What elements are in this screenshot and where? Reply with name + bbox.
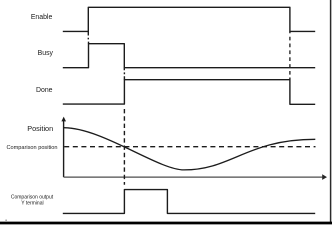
border right page edge [330, 0, 332, 224]
wire Done waveform [63, 80, 315, 105]
axis X (position plot horizontal axis with arrow) [64, 176, 323, 178]
curve position trajectory [64, 128, 316, 170]
wire Comparison output waveform [63, 190, 315, 214]
dashed edge-align connector at x=290 (Enable fall to Done fall) [289, 31, 291, 79]
stray dot bottom-left [5, 220, 6, 221]
dashed horizontal comparison-position level line [64, 146, 315, 148]
dashed vertical line at x=124 through position plot [123, 109, 125, 185]
svg-text:Position: Position [27, 124, 53, 133]
dashed edge-align connector at x=88 (Enable rise to Busy rise) [87, 31, 89, 43]
border bottom page edge (thick) [0, 222, 332, 225]
svg-text:Busy: Busy [38, 50, 54, 57]
svg-text:Comparison position: Comparison position [7, 145, 58, 151]
svg-text:Done: Done [36, 87, 53, 94]
axis Y (position plot vertical axis with arrow) [63, 121, 65, 177]
wire Enable waveform [63, 7, 315, 31]
dashed edge-align connector at x=124 (Busy fall to Done rise) [123, 68, 125, 80]
wire Busy waveform [63, 44, 315, 68]
svg-text:Y terminal: Y terminal [21, 200, 43, 206]
svg-text:Enable: Enable [31, 14, 53, 21]
